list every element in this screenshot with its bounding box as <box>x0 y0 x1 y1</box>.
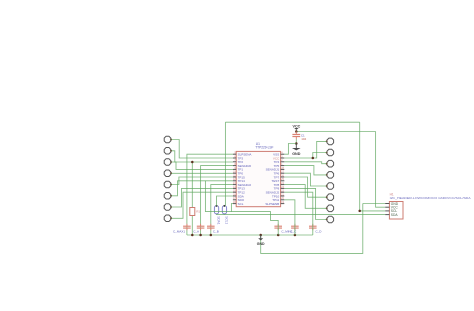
wire pad1 to TP3 <box>171 140 233 159</box>
wire padR1 to VCC pin <box>284 141 326 158</box>
pin 1 TP5 (right) <box>274 164 285 168</box>
wire SDA pin to SDA1 top <box>217 196 233 206</box>
pad P14 (right touch pad 6) <box>327 194 334 201</box>
pin 12 TP14 (left) <box>233 179 245 183</box>
pin 2 TP4 (right) <box>274 160 285 164</box>
capacitor C1 <box>292 132 306 141</box>
pin 19 SLPSENB (right) <box>265 202 284 206</box>
pad P12 (right touch pad 4) <box>327 172 334 179</box>
pad P13 (right touch pad 5) <box>327 183 334 190</box>
connector H1 I2C header <box>389 192 471 219</box>
wire R1 bottom to GND rail <box>191 216 193 236</box>
jumper SCL1 <box>222 205 228 225</box>
svg-text:VCC: VCC <box>293 124 301 128</box>
node rail junction C_MIN1 <box>277 234 280 237</box>
pad P16 (right touch pad 8) <box>327 216 334 223</box>
svg-text:SCL: SCL <box>238 202 244 206</box>
pad P3 (left touch pad 3) <box>164 159 171 166</box>
pin 20 TP11 (right) <box>272 198 284 202</box>
pad P11 (right touch pad 3) <box>327 160 334 167</box>
pad P6 (left touch pad 6) <box>164 193 171 200</box>
pin 21 TP10 (right) <box>272 194 285 198</box>
node rail junction R1 <box>191 234 194 237</box>
pin 11 TP15 (left) <box>233 175 245 179</box>
jumper SDA1 <box>214 205 220 225</box>
svg-text:C_D: C_D <box>315 229 322 233</box>
wire SENADJ0 to C_A <box>201 166 233 235</box>
svg-text:GND: GND <box>257 242 265 246</box>
node junction SCL header <box>358 210 361 213</box>
node rail junction C_B <box>210 234 213 237</box>
svg-text:SDA: SDA <box>391 213 399 217</box>
node junction VCC/C1 <box>295 130 298 133</box>
pin GND (header H1) <box>385 202 399 206</box>
pin SCL (header H1) <box>385 209 397 213</box>
pad P1 (left touch pad 1) <box>164 136 171 143</box>
wire TP2 net to R1 top <box>191 162 193 208</box>
pad P4 (left touch pad 4) <box>164 170 171 177</box>
pin 27 TP6 (right) <box>274 172 285 176</box>
node rail junction GND sym <box>259 234 262 237</box>
svg-text:C_C: C_C <box>290 229 297 233</box>
pin 10 TP0 (left) <box>233 172 244 176</box>
pin 24 TP8 (right) <box>274 183 285 187</box>
wire pad7 to TP13 <box>171 188 233 207</box>
node junction TP2/R1 <box>191 161 194 164</box>
wire VCC stub <box>295 130 297 132</box>
wire VCC bus <box>296 131 376 133</box>
wire top SCL bus <box>225 121 359 123</box>
wire pad4 to TP0 <box>171 172 233 174</box>
op-amp U1 TTP229-LSF (IC body) <box>236 142 280 207</box>
svg-text:C_A: C_A <box>193 229 199 233</box>
wire padR8 to TP9 <box>284 188 326 219</box>
capacitor C_A <box>193 224 204 234</box>
svg-text:I2C_HEADER-LOWCOMOCO GND/VCC/S: I2C_HEADER-LOWCOMOCO GND/VCC/SCL/SDA <box>390 196 472 200</box>
pad P9 (right touch pad 1) <box>327 138 334 145</box>
pin 18 SCL (left) <box>233 202 244 206</box>
pin 17 SDO (left) <box>233 198 245 202</box>
pin 8 SENADJ0 (left) <box>233 164 252 168</box>
wire pad5 to TP15 <box>171 177 233 185</box>
wire SDA line to header <box>217 213 386 216</box>
wire padR3 to TP4 <box>284 162 326 164</box>
pin 6 TP3 (left) <box>233 156 244 160</box>
svg-text:SCL1: SCL1 <box>225 216 229 224</box>
wire SLPSENA to C_MAX1 <box>187 154 233 235</box>
wire SCL1 bottom stub <box>223 213 225 216</box>
wire GND to header pin1 <box>363 203 385 205</box>
pin 26 TP7 (right) <box>274 175 285 179</box>
pin 22 SENADJ2 (right) <box>266 191 285 195</box>
pin 9 TP1 (left) <box>233 168 244 172</box>
capacitor C_D <box>309 224 322 234</box>
wire pad2 to TP2 <box>171 151 233 162</box>
wire padR5 to TP6 <box>284 173 326 186</box>
svg-text:104: 104 <box>301 137 306 141</box>
wire GND loop bottom <box>261 204 363 254</box>
ground GND (near C1) <box>292 144 301 156</box>
power VCC <box>293 124 301 130</box>
wire C1 bottom wire <box>295 139 297 143</box>
wire GND to VSS pin <box>284 144 296 155</box>
capacitor C_B <box>207 224 219 234</box>
wire TP14 riser to C_MIN1 <box>205 181 278 235</box>
wire pad6 to TP14 <box>171 181 233 196</box>
pad P15 (right touch pad 7) <box>327 205 334 212</box>
wire pad8 to TP12 <box>171 192 233 218</box>
ground GND (bottom rail) <box>257 235 265 246</box>
node rail junction C_C <box>294 234 297 237</box>
pin 3 VCC (right) <box>273 156 284 160</box>
pad P7 (left touch pad 7) <box>164 204 171 211</box>
wire TP11 to C_C <box>284 200 295 235</box>
node junction VCC branch <box>312 157 315 160</box>
pin 5 SLPSENA (left) <box>233 153 252 157</box>
wire padR4 to TP5 <box>284 166 326 175</box>
capacitor C_MIN1 <box>274 224 292 234</box>
wire SENADJ2 to C_D <box>284 192 313 235</box>
pin 14 TP13 (left) <box>233 187 245 191</box>
pin 25 TEST (right) <box>272 179 285 183</box>
svg-text:C_B: C_B <box>213 229 219 233</box>
wire SENADJ2 to C_B <box>211 185 233 235</box>
svg-text:TTP229-LSF: TTP229-LSF <box>255 146 273 150</box>
wire padR2 VCC branch <box>313 153 327 159</box>
pin 28 SENADJ1 (right) <box>266 168 285 172</box>
wire SCL1 top riser <box>224 122 226 206</box>
pin 23 TP9 (right) <box>274 187 285 191</box>
wire SCL pin jog <box>231 204 233 212</box>
pin VCC (header H1) <box>385 206 398 210</box>
pad P8 (left touch pad 8) <box>164 215 171 222</box>
node junction C1/GND <box>295 142 298 145</box>
capacitor C_MAX1 <box>173 224 191 234</box>
pad P2 (left touch pad 2) <box>164 148 171 155</box>
wire padR7 to TP8 <box>284 185 326 209</box>
node rail junction C_A <box>199 234 202 237</box>
svg-text:SDA1: SDA1 <box>217 216 221 225</box>
pin SDA (header H1) <box>385 213 398 217</box>
pin 4 VSS (right) <box>273 153 284 157</box>
wire SCL drop to header <box>360 122 386 211</box>
wire pad3 to TP1 <box>171 162 233 169</box>
pin 15 TP12 (left) <box>233 191 245 195</box>
resistor R1 <box>190 208 201 216</box>
wire VCC drop to header <box>376 132 386 208</box>
capacitor C_C <box>290 224 298 234</box>
svg-text:R1: R1 <box>196 209 200 213</box>
pin 13 SENADJ2 (left) <box>233 183 252 187</box>
wire GND rail <box>187 234 313 236</box>
pin 7 TP2 (left) <box>233 160 244 164</box>
svg-text:GND: GND <box>292 152 301 156</box>
pad P10 (right touch pad 2) <box>327 149 334 156</box>
svg-text:SLPSENB: SLPSENB <box>265 202 279 206</box>
svg-text:C_MAX1: C_MAX1 <box>173 229 185 233</box>
pad P5 (left touch pad 5) <box>164 181 171 188</box>
pin 16 SDA (left) <box>233 194 244 198</box>
wire padR6 to TP7 <box>284 177 326 197</box>
